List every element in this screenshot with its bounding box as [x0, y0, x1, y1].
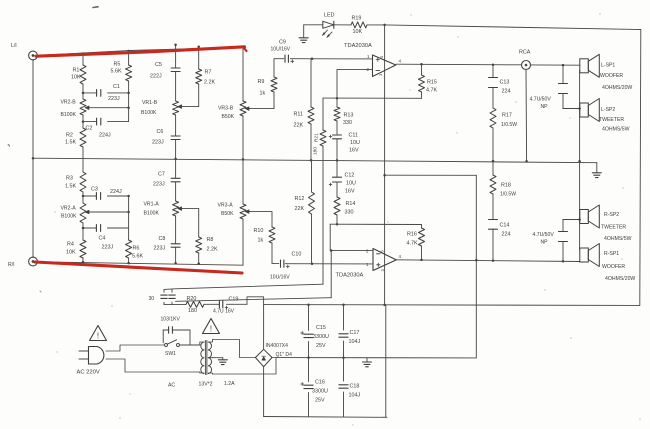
svg-text:R15: R15: [427, 80, 437, 86]
svg-text:C14: C14: [500, 223, 510, 229]
svg-text:C7: C7: [158, 172, 165, 178]
svg-text:C4: C4: [99, 236, 106, 242]
svg-text:R19: R19: [352, 16, 362, 22]
svg-text:330: 330: [343, 120, 352, 126]
svg-text:1/0.5W: 1/0.5W: [500, 192, 516, 198]
svg-text:C1: C1: [113, 84, 120, 90]
svg-text:103/1KV: 103/1KV: [161, 317, 181, 323]
svg-text:1: 1: [367, 54, 370, 59]
svg-text:NP: NP: [541, 104, 549, 110]
svg-text:224J: 224J: [99, 133, 111, 139]
svg-text:R9: R9: [258, 79, 265, 85]
svg-text:C19: C19: [229, 296, 239, 302]
svg-text:R3: R3: [66, 176, 73, 182]
svg-text:AC: AC: [168, 383, 175, 389]
svg-text:180: 180: [188, 308, 197, 314]
svg-text:10K: 10K: [71, 75, 81, 81]
svg-text:B100K: B100K: [61, 112, 77, 118]
svg-text:1.5K: 1.5K: [65, 140, 76, 146]
svg-text:104J: 104J: [349, 393, 361, 399]
svg-text:C6: C6: [157, 129, 164, 135]
svg-text:NP: NP: [541, 240, 549, 246]
svg-text:C5: C5: [155, 62, 162, 68]
svg-text:10K: 10K: [353, 29, 363, 35]
svg-text:4OHMS/5W: 4OHMS/5W: [602, 127, 630, 133]
svg-text:10U: 10U: [350, 140, 360, 146]
svg-text:104J: 104J: [349, 339, 361, 345]
svg-text:10K: 10K: [66, 250, 76, 256]
svg-text:R/I: R/I: [8, 262, 15, 268]
svg-text:1k: 1k: [260, 91, 266, 97]
svg-text:R13: R13: [344, 113, 354, 119]
svg-text:1k: 1k: [258, 238, 264, 244]
svg-text:25V: 25V: [315, 398, 325, 404]
svg-text:R18: R18: [501, 183, 511, 189]
svg-text:TWEETER: TWEETER: [599, 117, 624, 123]
svg-text:C13: C13: [500, 80, 510, 86]
svg-text:WOOFER: WOOFER: [600, 73, 623, 79]
svg-text:223J: 223J: [153, 182, 165, 188]
svg-text:22K: 22K: [294, 123, 304, 129]
svg-text:!: !: [97, 332, 99, 341]
svg-text:223J: 223J: [108, 96, 120, 102]
svg-text:R16: R16: [407, 232, 417, 238]
svg-text:R20: R20: [187, 296, 197, 302]
svg-text:B100K: B100K: [144, 211, 160, 217]
svg-text:2.2K: 2.2K: [204, 80, 215, 86]
svg-text:VR3-A: VR3-A: [218, 203, 234, 209]
svg-text:224: 224: [502, 232, 511, 238]
svg-text:R5: R5: [114, 62, 121, 68]
svg-text:RCA: RCA: [519, 50, 531, 56]
svg-text:VR3-B: VR3-B: [218, 106, 234, 112]
svg-text:R8: R8: [207, 237, 214, 243]
svg-text:10U/16V: 10U/16V: [270, 275, 290, 281]
svg-text:C10: C10: [292, 252, 302, 258]
svg-text:16V: 16V: [345, 189, 355, 195]
svg-text:4: 4: [399, 254, 402, 259]
svg-text:3: 3: [378, 73, 383, 76]
svg-text:R6: R6: [133, 246, 140, 252]
svg-text:3300U: 3300U: [312, 389, 328, 395]
svg-text:R11: R11: [294, 112, 304, 118]
svg-text:VR2-B: VR2-B: [61, 100, 77, 106]
svg-text:C9: C9: [279, 40, 286, 46]
svg-text:30: 30: [149, 296, 155, 302]
svg-text:!: !: [210, 325, 212, 334]
svg-text:22K: 22K: [295, 206, 305, 212]
svg-text:C3: C3: [91, 187, 98, 193]
svg-text:WOOFER: WOOFER: [602, 264, 625, 270]
svg-text:5.6K: 5.6K: [111, 69, 122, 75]
svg-text:L/I: L/I: [11, 43, 17, 49]
svg-text:L-SP2: L-SP2: [601, 107, 615, 113]
svg-text:4OHMS/20W: 4OHMS/20W: [605, 276, 635, 282]
svg-text:25V: 25V: [316, 343, 326, 349]
svg-text:L-SP1: L-SP1: [601, 63, 615, 69]
svg-text:R10: R10: [254, 228, 264, 234]
svg-text:R12: R12: [295, 196, 305, 202]
svg-text:4.7U/50V: 4.7U/50V: [530, 97, 552, 103]
svg-text:R17: R17: [502, 113, 512, 119]
svg-text:R1: R1: [73, 68, 80, 74]
svg-text:2.2K: 2.2K: [207, 247, 218, 253]
svg-text:R-SP1: R-SP1: [604, 251, 619, 257]
svg-text:R21: R21: [314, 133, 320, 142]
svg-text:223J: 223J: [152, 140, 164, 146]
svg-text:C2: C2: [86, 126, 93, 132]
svg-text:5.6K: 5.6K: [132, 254, 143, 260]
svg-text:4.7U 16V: 4.7U 16V: [213, 309, 235, 315]
svg-text:B100K: B100K: [61, 214, 77, 220]
svg-text:B50K: B50K: [222, 114, 235, 120]
svg-text:10U: 10U: [346, 181, 356, 187]
svg-text:VR2-A: VR2-A: [61, 206, 77, 212]
svg-text:R7: R7: [205, 70, 212, 76]
svg-text:C18: C18: [350, 384, 360, 390]
svg-text:180: 180: [313, 147, 319, 155]
svg-text:C16: C16: [315, 380, 325, 386]
svg-text:4OHMS/5W: 4OHMS/5W: [604, 236, 632, 242]
svg-text:1/0.5W: 1/0.5W: [501, 122, 517, 128]
svg-text:16V: 16V: [349, 148, 359, 154]
svg-text:R4: R4: [67, 242, 74, 248]
svg-text:4.7U/50V: 4.7U/50V: [533, 232, 555, 238]
svg-text:C15: C15: [316, 325, 326, 331]
svg-text:5: 5: [379, 250, 384, 253]
svg-text:C12: C12: [345, 173, 355, 179]
svg-text:4: 4: [399, 59, 402, 64]
svg-text:TWEETER: TWEETER: [601, 225, 626, 231]
svg-text:223J: 223J: [102, 245, 114, 251]
svg-text:B100K: B100K: [141, 110, 157, 116]
svg-text:LED: LED: [324, 13, 335, 19]
svg-text:SW1: SW1: [165, 351, 176, 357]
svg-text:4.7K: 4.7K: [407, 241, 418, 247]
svg-text:223J: 223J: [154, 246, 166, 252]
svg-text:R-SP2: R-SP2: [604, 212, 619, 218]
svg-text:224: 224: [502, 89, 511, 95]
svg-text:C11: C11: [349, 133, 359, 139]
svg-text:IN4007X4: IN4007X4: [266, 343, 289, 349]
svg-text:3300U: 3300U: [313, 334, 329, 340]
svg-text:4OHMS/20W: 4OHMS/20W: [602, 85, 632, 91]
svg-text:Q1″ D4: Q1″ D4: [276, 352, 293, 358]
svg-text:10U/16V: 10U/16V: [271, 47, 291, 53]
svg-text:R2: R2: [66, 133, 73, 139]
svg-text:R14: R14: [346, 201, 356, 207]
svg-text:13V*2: 13V*2: [199, 382, 213, 388]
svg-text:C8: C8: [159, 236, 166, 242]
svg-text:4.7K: 4.7K: [426, 88, 437, 94]
svg-text:222J: 222J: [150, 74, 162, 80]
svg-text:VR1-B: VR1-B: [142, 100, 158, 106]
svg-text:5: 5: [379, 55, 384, 58]
svg-text:VR1-A: VR1-A: [144, 202, 160, 208]
svg-text:C17: C17: [350, 330, 360, 336]
svg-text:B50K: B50K: [221, 211, 234, 217]
svg-text:330: 330: [345, 210, 354, 216]
svg-text:AC 220V: AC 220V: [77, 370, 100, 376]
svg-text:TDA2030A: TDA2030A: [344, 43, 372, 49]
svg-text:224J: 224J: [110, 189, 122, 195]
svg-text:TDA2030A: TDA2030A: [336, 273, 364, 279]
svg-text:1.5K: 1.5K: [65, 184, 76, 190]
svg-text:1.2A: 1.2A: [224, 381, 235, 387]
